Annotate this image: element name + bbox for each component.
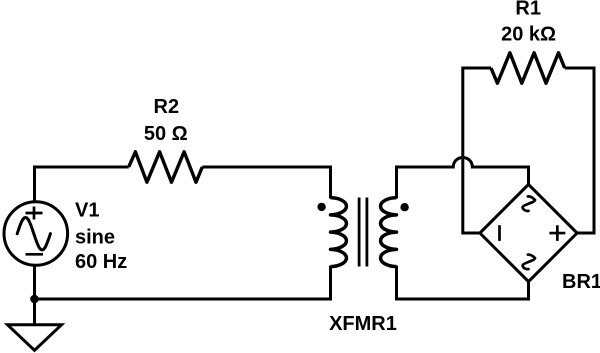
svg-text:R1: R1: [515, 0, 541, 20]
svg-text:60 Hz: 60 Hz: [75, 251, 127, 273]
svg-text:50 Ω: 50 Ω: [144, 123, 188, 145]
svg-text:XFMR1: XFMR1: [329, 313, 397, 335]
svg-text:sine: sine: [75, 226, 115, 248]
svg-text:V1: V1: [75, 200, 99, 222]
svg-text:BR1: BR1: [562, 271, 600, 293]
svg-text:20 kΩ: 20 kΩ: [501, 23, 556, 45]
svg-text:R2: R2: [154, 96, 180, 118]
